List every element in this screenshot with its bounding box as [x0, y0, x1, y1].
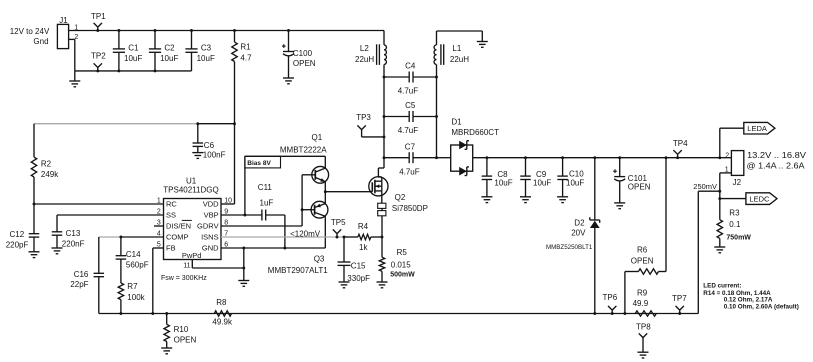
svg-text:250mV: 250mV — [693, 182, 717, 191]
wire TP5 to R4 — [344, 236, 358, 238]
svg-text:R4: R4 — [358, 222, 369, 231]
capacitor C101 (open) — [613, 156, 651, 203]
svg-text:220nF: 220nF — [62, 240, 85, 249]
svg-text:R6: R6 — [637, 246, 648, 255]
svg-text:1: 1 — [157, 197, 161, 204]
svg-text:MMBT2222A: MMBT2222A — [280, 145, 327, 154]
svg-text:4.7uF: 4.7uF — [399, 167, 420, 176]
wire L1 rail — [435, 65, 438, 160]
capacitor C1 — [113, 29, 143, 72]
svg-text:Si7850DP: Si7850DP — [392, 204, 428, 213]
svg-text:L2: L2 — [360, 44, 369, 53]
wire R2 to RC — [33, 177, 36, 205]
wire ISNS pin7 (gray net) — [221, 236, 344, 238]
svg-text:@ 1.4A .. 2.6A: @ 1.4A .. 2.6A — [747, 161, 806, 170]
svg-text:TP5: TP5 — [331, 218, 346, 227]
ground below C12 — [29, 252, 40, 258]
wire emitters to Q2 gate — [325, 191, 372, 193]
svg-text:C15: C15 — [351, 262, 366, 271]
svg-text:R8: R8 — [216, 298, 227, 307]
svg-text:500mW: 500mW — [390, 271, 415, 278]
svg-text:TP2: TP2 — [91, 51, 106, 60]
svg-text:Q1: Q1 — [312, 133, 323, 142]
svg-text:LED current:: LED current: — [703, 283, 741, 290]
label <120mV — [290, 229, 321, 238]
label Fsw — [161, 275, 207, 282]
resistor R1 — [232, 29, 252, 63]
capacitor C12 — [6, 204, 40, 252]
wire R4 to sense node — [371, 236, 384, 239]
svg-text:C6: C6 — [204, 141, 215, 150]
svg-text:13.2V .. 16.8V: 13.2V .. 16.8V — [747, 151, 807, 160]
svg-text:J1: J1 — [59, 16, 68, 25]
svg-text:22uH: 22uH — [450, 55, 469, 64]
svg-text:OPEN: OPEN — [628, 182, 651, 191]
svg-text:Bias 8V: Bias 8V — [247, 160, 271, 167]
svg-text:10uF: 10uF — [566, 179, 584, 188]
transistor Q1 MMBT2222A — [280, 133, 329, 192]
svg-text:Q2: Q2 — [395, 193, 406, 202]
wire feedback bottom rail — [99, 313, 595, 315]
svg-text:TP8: TP8 — [636, 323, 651, 332]
wire L1 top to ground — [437, 31, 483, 42]
svg-text:100k: 100k — [127, 293, 145, 302]
svg-text:49.9: 49.9 — [633, 299, 649, 308]
svg-text:C5: C5 — [405, 101, 416, 110]
svg-text:560pF: 560pF — [126, 261, 149, 270]
svg-text:TP4: TP4 — [673, 139, 688, 148]
svg-text:Fsw = 300KHz: Fsw = 300KHz — [161, 275, 207, 282]
svg-text:C1: C1 — [128, 44, 139, 53]
wire Q2 source — [381, 196, 383, 237]
capacitor C10 — [557, 156, 584, 197]
svg-text:10uF: 10uF — [160, 54, 178, 63]
svg-text:MBRD660CT: MBRD660CT — [451, 128, 499, 137]
svg-text:20V: 20V — [571, 229, 586, 238]
wire rail to LEDA — [718, 128, 743, 159]
node LEDC flag — [746, 193, 777, 205]
svg-text:R2: R2 — [41, 159, 52, 168]
test point TP8 — [636, 323, 651, 353]
svg-text:4.7uF: 4.7uF — [398, 126, 419, 135]
svg-text:<120mV: <120mV — [290, 229, 321, 238]
capacitor C13 — [52, 229, 85, 248]
svg-text:12V to 24V: 12V to 24V — [10, 27, 50, 36]
svg-text:ISNS: ISNS — [201, 233, 219, 242]
svg-text:VDD: VDD — [203, 200, 219, 209]
svg-text:R1: R1 — [240, 42, 251, 51]
wire output rail — [473, 157, 720, 159]
svg-text:R9: R9 — [637, 288, 648, 297]
connector J2 — [725, 151, 807, 187]
svg-text:0.10 Ohm, 2.60A (default): 0.10 Ohm, 2.60A (default) — [724, 303, 799, 310]
svg-text:10uF: 10uF — [533, 179, 551, 188]
resistor R4 — [358, 222, 371, 252]
capacitor C15 — [338, 236, 371, 283]
test point TP4 — [673, 139, 688, 159]
svg-text:249k: 249k — [41, 170, 59, 179]
wire pin6 GND net — [221, 247, 325, 250]
ground at L1 top — [477, 42, 488, 48]
ground below C9 — [520, 197, 531, 203]
node Bias 8V — [245, 156, 325, 215]
wire bottom rail right — [595, 313, 699, 315]
svg-text:D2: D2 — [574, 218, 585, 227]
svg-text:22uH: 22uH — [355, 55, 374, 64]
svg-text:D1: D1 — [451, 117, 462, 126]
test point TP7 — [672, 294, 687, 315]
svg-text:RC: RC — [166, 200, 177, 209]
wire input ground rail — [75, 70, 192, 72]
capacitor C3 — [185, 29, 215, 71]
inductor L1 — [434, 31, 469, 65]
wire VBP pin9 — [221, 214, 262, 217]
wire L2 rail — [383, 65, 386, 160]
resistor R6 (open) — [623, 156, 667, 315]
svg-text:TP6: TP6 — [603, 293, 618, 302]
wire R1 to VDD — [233, 62, 236, 205]
svg-text:PwPd: PwPd — [182, 251, 202, 260]
capacitor C9 — [520, 156, 551, 197]
svg-text:DIS/EN: DIS/EN — [166, 222, 191, 231]
resistor R5 — [379, 237, 415, 282]
op-amp U1 TPS40211DGQ — [157, 176, 232, 269]
transistor Q3 MMBT2907ALT1 — [268, 192, 328, 275]
capacitor C14 — [116, 237, 149, 283]
svg-text:GDRV: GDRV — [197, 222, 219, 231]
svg-text:C4: C4 — [405, 62, 416, 71]
wire top input rail — [98, 30, 384, 32]
svg-text:Q3: Q3 — [314, 255, 325, 264]
svg-text:Gnd: Gnd — [33, 37, 48, 46]
diode D2 zener 20V — [546, 156, 600, 315]
wire J1 pin2 down — [69, 39, 75, 71]
wire GND net down — [242, 248, 245, 281]
svg-text:10uF: 10uF — [494, 179, 512, 188]
svg-text:C12: C12 — [10, 230, 25, 239]
ground below U1 — [238, 281, 249, 287]
svg-text:49.9k: 49.9k — [212, 318, 233, 327]
svg-text:FB: FB — [166, 244, 176, 253]
wire J1 pin1 to top rail — [69, 30, 98, 32]
node driver emitters — [324, 190, 327, 193]
ground below C8 — [481, 197, 492, 203]
test point TP3 — [356, 113, 384, 137]
ground below C13 — [52, 248, 63, 254]
ground below J1 pin2 — [69, 71, 80, 87]
ground below R3 — [714, 247, 725, 253]
ground below R10 — [161, 348, 172, 354]
wire C6 to VDD rail — [198, 123, 235, 125]
svg-text:TP3: TP3 — [356, 113, 371, 122]
svg-text:L1: L1 — [452, 44, 461, 53]
ground below C15 — [339, 282, 350, 288]
wire to LEDC — [720, 198, 746, 200]
svg-text:COMP: COMP — [166, 233, 189, 242]
ground below TP8 — [638, 352, 649, 358]
svg-text:R7: R7 — [127, 282, 138, 291]
Q2 source pin packages — [378, 203, 386, 216]
wire COMP gray segment — [99, 236, 121, 238]
svg-text:220pF: 220pF — [6, 241, 29, 250]
ground below R5 — [377, 282, 388, 288]
svg-text:22pF: 22pF — [70, 280, 88, 289]
wire pin11 PwPd to ground — [192, 260, 244, 269]
capacitor C16 — [70, 237, 104, 314]
svg-text:11: 11 — [183, 262, 190, 269]
svg-text:C13: C13 — [66, 229, 81, 238]
svg-text:LEDC: LEDC — [749, 195, 770, 204]
svg-text:C7: C7 — [405, 142, 416, 151]
wire COMP pin4 — [119, 236, 163, 239]
capacitor C5 — [384, 101, 437, 135]
connector J1 — [10, 16, 79, 48]
svg-text:VBP: VBP — [204, 211, 219, 220]
svg-text:OPEN: OPEN — [174, 335, 197, 344]
inductor L2 — [355, 31, 386, 65]
node LEDA flag — [744, 122, 775, 134]
svg-text:C2: C2 — [164, 44, 175, 53]
note LED current — [703, 283, 799, 311]
wire J2 pin1 down — [718, 173, 731, 220]
svg-text:OPEN: OPEN — [631, 256, 654, 265]
svg-text:0.1: 0.1 — [729, 220, 741, 229]
wire RC pin1 — [34, 203, 164, 205]
wire rail to J2 pin2 — [720, 157, 732, 159]
svg-text:TP1: TP1 — [91, 12, 106, 21]
ground below C10 — [557, 197, 568, 203]
svg-text:TP7: TP7 — [672, 294, 687, 303]
resistor R3 — [717, 209, 751, 247]
svg-text:1uF: 1uF — [260, 199, 274, 208]
ground below C6 — [192, 153, 203, 159]
diode D1 MBRD660CT — [437, 117, 500, 175]
svg-text:4.7: 4.7 — [240, 54, 252, 63]
svg-text:C3: C3 — [201, 44, 212, 53]
capacitor C6 — [193, 122, 226, 159]
wire R2 to C6 (gray net) — [34, 123, 198, 125]
capacitor C100 (open) — [282, 29, 316, 78]
svg-text:GND: GND — [202, 244, 219, 253]
svg-text:10uF: 10uF — [124, 54, 142, 63]
svg-text:C14: C14 — [126, 250, 141, 259]
svg-text:SS: SS — [166, 211, 176, 220]
svg-text:R10: R10 — [174, 325, 189, 334]
svg-text:LEDA: LEDA — [747, 124, 767, 133]
svg-text:100nF: 100nF — [203, 151, 226, 160]
resistor R2 — [31, 124, 59, 180]
capacitor C4 — [384, 62, 437, 96]
resistor R8 — [212, 298, 233, 327]
wire pin10 VDD stub — [221, 203, 235, 205]
svg-text:C100: C100 — [293, 49, 313, 58]
wire SS pin2 — [57, 215, 164, 232]
svg-text:0.015: 0.015 — [391, 260, 412, 269]
resistor R10 — [164, 312, 196, 348]
capacitor C2 — [149, 29, 179, 72]
test point TP5 — [331, 218, 346, 238]
svg-text:C11: C11 — [258, 183, 273, 192]
capacitor C11 — [258, 183, 285, 248]
wire GDRV pin8 — [221, 175, 304, 226]
svg-text:J2: J2 — [733, 178, 742, 187]
capacitor C8 — [482, 156, 513, 197]
capacitor C7 — [384, 142, 437, 176]
svg-text:U1: U1 — [186, 176, 197, 185]
test point TP1 — [91, 12, 106, 32]
svg-text:R3: R3 — [729, 209, 740, 218]
svg-text:4.7uF: 4.7uF — [398, 87, 419, 96]
resistor R7 — [118, 282, 145, 315]
svg-text:TPS40211DGQ: TPS40211DGQ — [163, 185, 218, 194]
test point TP6 — [603, 293, 618, 315]
ground below C101 — [614, 203, 625, 209]
svg-text:C16: C16 — [74, 270, 89, 279]
wire FB pin5 — [151, 248, 163, 315]
svg-text:2: 2 — [157, 208, 161, 215]
svg-text:10uF: 10uF — [197, 54, 215, 63]
resistor R9 — [633, 288, 657, 316]
svg-text:1k: 1k — [359, 243, 368, 252]
svg-text:MMBT2907ALT1: MMBT2907ALT1 — [268, 266, 328, 275]
test point TP2 — [91, 51, 106, 72]
svg-text:C10: C10 — [569, 170, 584, 179]
svg-text:330pF: 330pF — [347, 274, 370, 283]
svg-text:750mW: 750mW — [726, 235, 751, 242]
ground below C100 — [283, 78, 294, 84]
svg-text:OPEN: OPEN — [293, 59, 316, 68]
node 250mV — [693, 182, 720, 313]
transistor Q2 Si7850DP — [369, 158, 428, 213]
svg-text:MMBZ5250BLT1: MMBZ5250BLT1 — [546, 244, 593, 251]
svg-text:R5: R5 — [397, 248, 408, 257]
wire pin3 stub — [154, 225, 164, 227]
